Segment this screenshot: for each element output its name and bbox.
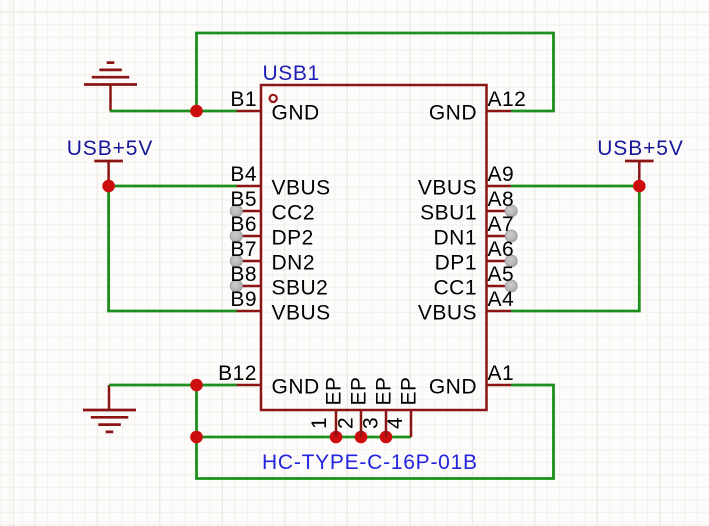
svg-text:USB+5V: USB+5V [597,137,684,160]
svg-text:SBU1: SBU1 [420,202,477,225]
pin EP3 [360,376,396,437]
svg-text:B8: B8 [230,263,257,286]
wire: top loop junction B1 to pin A12 [197,33,554,111]
svg-text:A12: A12 [488,88,527,111]
wire: right rail down to pin A4 [511,186,639,311]
svg-text:A5: A5 [488,263,515,286]
pin EP1 [308,376,346,437]
wire: EP bus to EP pins [197,436,412,439]
pin B1 (GND) [230,88,319,125]
junction at right rail / A9 [633,180,646,193]
svg-text:2: 2 [335,417,358,429]
svg-text:EP: EP [398,376,421,405]
power flag USB+5V (right) [625,161,654,186]
svg-text:A1: A1 [488,362,515,385]
svg-text:USB+5V: USB+5V [67,137,154,160]
pin EP2 [335,376,371,437]
pin B8 (SBU2) unconnected [230,263,328,300]
svg-text:DN2: DN2 [272,252,316,275]
svg-text:1: 1 [308,417,331,429]
svg-text:B6: B6 [230,213,257,236]
svg-text:EP: EP [323,376,346,405]
svg-text:A8: A8 [488,188,515,211]
connector USB1 body outline [261,85,487,410]
svg-text:HC-TYPE-C-16P-01B: HC-TYPE-C-16P-01B [262,451,478,474]
pin A4 (VBUS) [418,288,514,325]
pin B9 (VBUS) [230,288,330,325]
wire: B12 junction down to EP junction [195,385,198,437]
svg-text:B9: B9 [230,288,257,311]
svg-text:B4: B4 [230,163,257,186]
junction at EP3 [380,431,393,444]
svg-text:B7: B7 [230,238,257,261]
svg-text:GND: GND [272,376,320,399]
power flag USB+5V (left) [94,161,123,186]
junction at B12 wire [190,379,203,392]
wire: junction to pin B1 [197,110,238,113]
svg-text:GND: GND [272,102,320,125]
pin B12 (GND) [218,362,320,399]
ground GND2 (bottom left earth) [83,385,136,432]
svg-text:EP: EP [348,376,371,405]
svg-text:DP2: DP2 [272,227,314,250]
pin A1 (GND) [429,362,514,399]
junction at B1 wire [190,105,203,118]
svg-text:USB1: USB1 [263,62,320,85]
pin-1 indicator circle [270,95,277,102]
junction at EP1 [330,431,343,444]
svg-text:VBUS: VBUS [272,302,331,325]
svg-text:CC1: CC1 [433,277,477,300]
svg-text:GND: GND [429,102,477,125]
svg-text:A6: A6 [488,238,515,261]
pin A8 (SBU1) unconnected [420,188,517,225]
svg-text:VBUS: VBUS [272,177,331,200]
pin A5 (CC1) unconnected [433,263,517,300]
svg-text:B5: B5 [230,188,257,211]
pin EP4 [384,376,421,437]
pin B6 (DP2) unconnected [230,213,314,250]
svg-text:4: 4 [384,417,407,429]
junction at left rail / B4 [102,180,115,193]
wire: bottom loop EP junction to pin A1 [197,385,554,479]
svg-text:SBU2: SBU2 [272,277,329,300]
junction at EP bus left [190,431,203,444]
wire: GND1 to junction at B1 [110,110,197,113]
wire: left rail to pin B4 [109,185,237,188]
pin A6 (DP1) unconnected [435,238,518,275]
pin A9 (VBUS) [418,163,514,200]
svg-text:CC2: CC2 [272,202,316,225]
ground GND1 (top left, inverted earth) [84,63,137,111]
wire: GND2 through junction to pin B12 [109,384,237,387]
svg-text:EP: EP [373,376,396,405]
wire: left rail down to pin B9 [109,186,237,311]
svg-text:VBUS: VBUS [418,302,477,325]
svg-text:DN1: DN1 [433,227,477,250]
svg-text:DP1: DP1 [435,252,477,275]
svg-text:A9: A9 [488,163,515,186]
pin B7 (DN2) unconnected [230,238,315,275]
svg-text:A7: A7 [488,213,515,236]
junction at EP2 [355,431,368,444]
svg-text:VBUS: VBUS [418,177,477,200]
pin B4 (VBUS) [230,163,330,200]
wire: pin A9 to right rail [511,185,639,188]
svg-text:3: 3 [360,417,383,429]
svg-text:GND: GND [429,376,477,399]
pin B5 (CC2) unconnected [230,188,315,225]
pin A7 (DN1) unconnected [433,213,517,250]
pin A12 (GND) [429,88,527,125]
svg-text:A4: A4 [488,288,515,311]
svg-text:B12: B12 [218,362,257,385]
svg-text:B1: B1 [230,88,257,111]
